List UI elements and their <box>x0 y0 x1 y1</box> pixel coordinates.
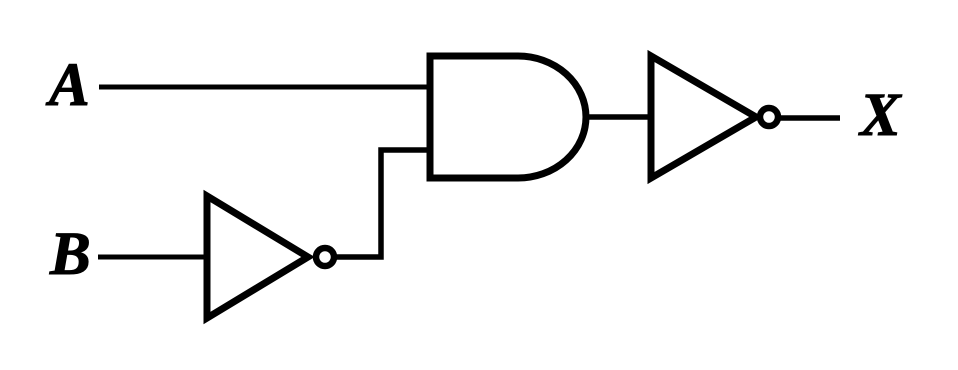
AND gate U2 <box>430 56 586 178</box>
wire NOT-B output to AND gate lower input <box>336 150 430 257</box>
inverter U3 bubble <box>760 108 778 126</box>
svg-text:A: A <box>45 52 90 119</box>
inverter U1 bubble <box>316 248 334 266</box>
wire B input to NOT gate <box>98 255 208 260</box>
wire AND output to inverter U3 <box>586 114 652 120</box>
svg-text:X: X <box>858 82 902 149</box>
wire A input to AND gate <box>99 85 430 90</box>
inverter U3 (output NOT gate) <box>651 56 756 178</box>
inverter U1 (NOT gate on B input) <box>207 196 308 318</box>
wire inverter U3 output to X <box>780 115 840 121</box>
svg-text:B: B <box>49 221 91 288</box>
